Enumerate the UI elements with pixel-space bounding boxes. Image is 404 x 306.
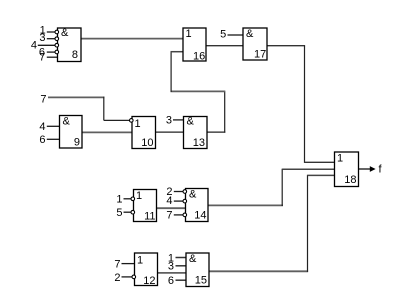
wire net 5 to gate 11 pin 2 [124, 211, 134, 213]
svg-text:7: 7 [114, 258, 120, 270]
wire gate 16 output to gate 17 input 2 [206, 45, 243, 47]
svg-text:7: 7 [39, 51, 45, 63]
input label 7 (gate 8) [39, 51, 45, 63]
svg-text:&: & [61, 27, 69, 39]
wire net 4 to gate 14 pin 2 [174, 200, 186, 202]
wire net 7 vertical segment [103, 97, 105, 121]
wire net 3 to gate 13 pin 1 [173, 119, 184, 121]
gate 8 input bubble pin 3 [55, 43, 59, 47]
input label 1 (gate 8) [40, 25, 46, 37]
wire net 7 horizontal segment [48, 96, 104, 98]
wire net 2 to gate 12 pin 2 [122, 276, 135, 278]
svg-text:15: 15 [195, 275, 207, 287]
wire net 6 to gate 9 pin 2 [47, 138, 60, 140]
output label f [379, 164, 383, 176]
wire net 6 to gate 8 pin 4 [47, 51, 58, 53]
wire gate 14 output horizontal segment [208, 204, 283, 206]
wire net 6 to gate 15 pin 4 [176, 279, 187, 281]
gate 12 input bubble pin 2 [132, 275, 136, 279]
wire gate 13 output horizontal segment [207, 131, 225, 133]
input label 6 (gate 9) [39, 134, 45, 146]
svg-text:&: & [189, 253, 197, 265]
wire gate 15 output horizontal segment [209, 270, 308, 272]
gate 15 (AND "&") [186, 253, 209, 287]
wire gate 13 net vertical riser [224, 91, 226, 132]
gate 8 input bubble pin 4 [55, 50, 59, 54]
wire into gate 16 input 2 [171, 51, 184, 53]
svg-text:3: 3 [166, 115, 172, 127]
wire into gate 18 input 1 [305, 161, 335, 163]
svg-text:3: 3 [168, 261, 174, 273]
wire net 3 to gate 15 pin 2 [176, 265, 187, 267]
gate 11 (OR "1") [134, 190, 157, 223]
svg-text:2: 2 [114, 272, 120, 284]
gate 16 (OR "1") [183, 28, 206, 62]
svg-text:16: 16 [193, 50, 205, 62]
wire net 7 to gate 14 pin 4 [174, 214, 186, 216]
svg-text:4: 4 [166, 195, 172, 207]
svg-text:11: 11 [144, 211, 155, 223]
svg-text:&: & [246, 28, 254, 40]
input label 4 (gate 8) [31, 39, 37, 51]
svg-text:&: & [63, 116, 71, 128]
svg-text:1: 1 [116, 194, 122, 206]
wire net 4 to gate 9 pin 1 [47, 125, 60, 127]
wire gate 17 output horizontal segment [267, 45, 305, 47]
wire gate 18 output to f with arrowhead [359, 166, 376, 172]
svg-text:9: 9 [74, 137, 80, 149]
gate 13 (AND "&") [184, 116, 208, 149]
svg-text:5: 5 [116, 207, 122, 219]
svg-text:6: 6 [168, 275, 174, 287]
svg-text:1: 1 [135, 118, 141, 130]
svg-text:14: 14 [194, 210, 206, 222]
input label 4 (gate 14) [166, 195, 172, 207]
wire into gate 18 input 3 [308, 174, 335, 176]
wire gate 17 net vertical drop [304, 46, 306, 163]
input label 5 (gate 11) [116, 207, 122, 219]
svg-text:4: 4 [31, 39, 37, 51]
input label 3 (gate 8) [39, 32, 45, 44]
gate 9 (AND "&") [60, 116, 83, 149]
svg-text:4: 4 [39, 121, 45, 133]
wire into gate 18 input 2 [282, 168, 334, 170]
wire gate 11 output to gate 14 input 3 [157, 207, 186, 209]
wire net 3 to gate 8 pin 2 [47, 38, 58, 40]
input label 3 (gate 13) [166, 115, 172, 127]
svg-text:17: 17 [254, 49, 266, 61]
svg-text:6: 6 [39, 134, 45, 146]
gate 14 input bubble pin 4 [183, 213, 187, 217]
svg-text:&: & [187, 116, 195, 128]
gate 11 input bubble pin 1 [131, 197, 135, 201]
wire net 7 to gate 12 pin 1 [122, 263, 135, 265]
svg-text:12: 12 [143, 275, 155, 287]
wire gate 10 output to gate 13 input 2 [156, 131, 184, 133]
gate 10 (OR "1") [132, 117, 156, 150]
svg-text:1: 1 [186, 28, 192, 40]
gate 8 input bubble pin 1 [55, 30, 59, 34]
wire net 5 to gate 17 pin 1 [228, 34, 244, 36]
input label 6 (gate 8) [39, 46, 45, 58]
input label 1 (gate 15) [168, 252, 174, 264]
svg-text:7: 7 [40, 93, 46, 105]
gate 8 input bubble pin 2 [55, 37, 59, 41]
wire gate 8 output to gate 16 input 1 [81, 38, 183, 40]
gate 8 (AND, 5 inverted-style inputs) [58, 27, 82, 62]
gate 18 (OR "1") [335, 152, 359, 187]
svg-text:&: & [189, 189, 197, 201]
input label 5 (gate 17) [220, 28, 226, 40]
svg-text:1: 1 [136, 190, 142, 202]
input label 7 (gate 12) [114, 258, 120, 270]
svg-text:18: 18 [344, 174, 356, 186]
input label 1 (gate 11) [116, 194, 122, 206]
input label 7 (gate 14) [166, 210, 172, 222]
wire net 1 to gate 11 pin 1 [124, 198, 134, 200]
wire net 4 to gate 8 pin 3 [38, 44, 58, 46]
gate 14 (AND "&") [186, 189, 209, 222]
gate 17 (AND "&") [243, 28, 267, 61]
gate 12 (OR "1") [135, 253, 158, 287]
gate 14 input bubble pin 1 [183, 190, 187, 194]
svg-text:13: 13 [193, 137, 205, 149]
svg-text:8: 8 [72, 49, 78, 61]
wire gate 12 output to gate 15 input 3 [158, 272, 187, 274]
svg-text:1: 1 [337, 153, 343, 165]
svg-text:1: 1 [137, 255, 143, 267]
wire net 2 to gate 14 pin 1 [174, 191, 186, 193]
svg-text:3: 3 [39, 32, 45, 44]
input label 6 (gate 15) [168, 275, 174, 287]
svg-text:5: 5 [220, 28, 226, 40]
gate 10 input bubble pin 1 [130, 119, 134, 123]
input label 2 (gate 14) [166, 186, 172, 198]
wire net 1 to gate 8 pin 1 [47, 31, 58, 33]
input label 7 (gate 10 net) [40, 93, 46, 105]
wire net 7 to gate 8 pin 5 [47, 56, 58, 58]
wire net 1 to gate 15 pin 1 [176, 257, 187, 259]
svg-text:10: 10 [141, 137, 153, 149]
wire gate 9 output to gate 10 input 2 [82, 131, 132, 133]
svg-text:7: 7 [166, 210, 172, 222]
input label 2 (gate 12) [114, 272, 120, 284]
gate 11 input bubble pin 2 [131, 210, 135, 214]
wire gate 14 net vertical riser [281, 169, 283, 206]
wire gate 13 net second riser [170, 52, 172, 92]
input label 3 (gate 15) [168, 261, 174, 273]
wire net 7 into gate 10 pin 1 [104, 119, 131, 121]
input label 4 (gate 9) [39, 121, 45, 133]
wire gate 13 net upper horizontal [171, 90, 226, 92]
gate 14 input bubble pin 2 [183, 199, 187, 203]
svg-text:f: f [379, 164, 383, 176]
wire gate 15 net vertical riser [307, 175, 309, 272]
